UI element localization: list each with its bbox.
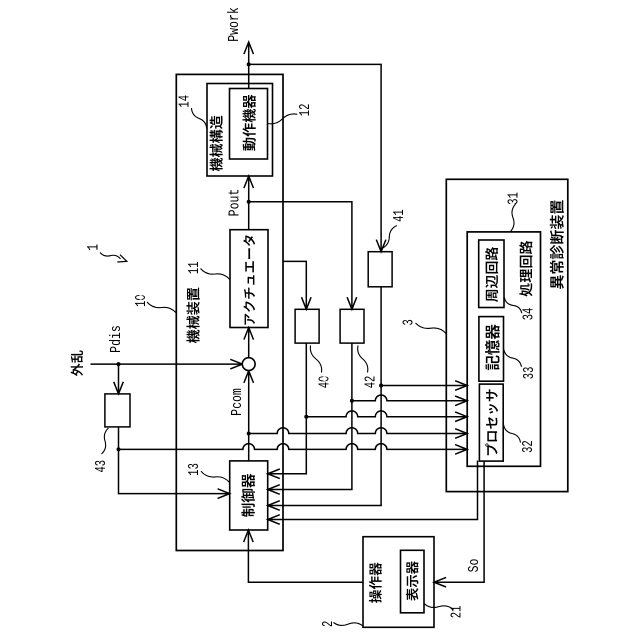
leader label 13 (201, 471, 230, 482)
wire Pout branch to sensor 42 (249, 202, 352, 310)
wire feed 2 sensor42-line to processing circuit (352, 395, 467, 401)
arrowhead into controller right 2 (268, 485, 280, 495)
label 機械構造 (210, 116, 223, 172)
wire feed 5 sensor43-line to processing circuit (119, 444, 468, 450)
label アクチュエータ (243, 235, 255, 324)
arrowhead into controller bottom (244, 530, 254, 542)
svg-text:33: 33 (520, 367, 537, 380)
wire So processor to display (434, 461, 484, 583)
junction disturbance (117, 362, 121, 366)
arrowhead into sensor 42 top (347, 297, 357, 309)
leader label 12 (268, 114, 298, 124)
arrowhead feed 2 (455, 396, 467, 406)
svg-text:14: 14 (176, 95, 193, 108)
arrowhead into controller right 4 (268, 515, 280, 525)
svg-text:34: 34 (520, 308, 537, 321)
svg-text:Pout: Pout (227, 189, 244, 217)
leader label 42 (358, 346, 368, 373)
label プロセッサ (485, 389, 498, 455)
wire processor to controller (268, 461, 478, 520)
svg-text:21: 21 (448, 605, 465, 618)
wire branch to sensor 43 (118, 364, 120, 394)
wire disturbance 外乱 input (91, 363, 243, 365)
box operation-device 操作器 (2) (363, 537, 434, 628)
box sensor 43 (105, 394, 130, 427)
wire operation device to controller (248, 530, 363, 582)
wire feed 1 sensor41-line to processing circuit (381, 385, 467, 387)
leader label 10 (147, 302, 176, 313)
svg-text:2: 2 (319, 621, 336, 627)
label 処理回路 (519, 241, 532, 297)
box peripheral-circuit 周辺回路 (34) (479, 240, 504, 308)
box operating-device 動作機器 (12) (230, 89, 268, 160)
wire sensor 40 to controller (268, 343, 307, 474)
svg-text:1: 1 (86, 244, 103, 251)
wire machine edge to sensor 40 (283, 261, 306, 309)
wire feed 3 sensor40-line to processing circuit (306, 411, 467, 417)
mask dot of 0 glyph in label 40 (322, 377, 327, 382)
wire Pcom controller to summing junction (248, 371, 250, 461)
arrowhead label 1 (117, 255, 127, 262)
junction sensor 43 output (117, 447, 121, 451)
junction Pwork (247, 62, 251, 66)
box machine-unit 機械装置 (10) (176, 74, 283, 550)
label 外乱 (71, 350, 83, 376)
wire sensor 41 to controller (268, 287, 381, 506)
wire Pwork output (248, 42, 250, 89)
svg-text:13: 13 (185, 463, 202, 476)
wire summing junction to actuator (248, 328, 250, 358)
arrowhead into controller right 1 (268, 469, 280, 479)
leader label 41 (382, 226, 397, 249)
leader label 40 (310, 346, 321, 373)
svg-text:So: So (467, 559, 484, 573)
svg-text:3: 3 (400, 319, 417, 325)
svg-text:Pwork: Pwork (227, 7, 244, 42)
svg-text:31: 31 (505, 192, 522, 205)
leader label 34 (504, 298, 522, 314)
label 制御器 (241, 474, 255, 517)
wire sensor 43 output down (119, 427, 230, 494)
arrowhead into summing junction bottom (244, 371, 254, 383)
box processor プロセッサ (32) (479, 384, 503, 461)
box processing-circuit 処理回路 (31) (467, 232, 540, 466)
svg-text:11: 11 (185, 261, 202, 274)
wire sensor 42 to controller (268, 343, 352, 489)
arrowhead into operation device right (434, 577, 446, 587)
arrowhead feed 3 (455, 412, 467, 422)
leader label 21 (424, 604, 453, 610)
arrowhead into controller left (Pdis) (218, 489, 230, 499)
box memory 記憶器 (33) (479, 317, 504, 382)
arrowhead Pwork up (244, 42, 254, 54)
arrowhead Pout up (244, 176, 254, 188)
box sensor 41 (368, 252, 392, 287)
wire Pwork branch to sensor 41 (249, 64, 381, 251)
leader label 32 (504, 425, 521, 443)
leader label 43 (102, 428, 109, 454)
arrowhead into sensor 40 top (302, 297, 312, 309)
box controller 制御器 (13) (230, 461, 268, 530)
summing junction circle (242, 358, 255, 371)
svg-text:Pdis: Pdis (109, 325, 126, 353)
junction Pcom (247, 432, 251, 436)
arrowhead feed 4 (455, 429, 467, 439)
arrowhead feed 1 (455, 381, 467, 391)
junction sensor 41 line (379, 384, 383, 388)
box sensor 40 (295, 309, 319, 343)
leader label 31 (511, 204, 516, 232)
junction Pout (247, 200, 251, 204)
junction sensor 42 line (350, 399, 354, 403)
svg-text:Pcom: Pcom (230, 388, 247, 416)
svg-text:43: 43 (92, 460, 109, 473)
arrowhead into controller right 3 (268, 501, 280, 511)
label 機械装置 (186, 288, 199, 344)
svg-text:42: 42 (362, 376, 379, 389)
arrowhead into actuator bottom (244, 328, 254, 340)
label 操作器 (369, 562, 382, 603)
arrowhead into sensor 41 top (376, 240, 386, 252)
box sensor 42 (340, 309, 364, 343)
box mechanical-structure 機械構造 (14) (207, 84, 273, 177)
leader label 33 (504, 350, 522, 367)
junction sensor 40 line (304, 415, 308, 419)
mask dot of 0 glyph in label 10 (138, 295, 143, 300)
arrowhead into sensor 43 top (114, 382, 124, 394)
svg-text:32: 32 (519, 440, 536, 453)
leader label 3 (416, 323, 447, 334)
box display 表示器 (21) (401, 550, 425, 613)
wire feed 4 Pcom to processing circuit (249, 428, 468, 434)
label 動作機器 (242, 95, 255, 151)
leader label 1 (100, 253, 121, 259)
label 記憶器 (485, 324, 500, 370)
label 表示器 (406, 561, 419, 601)
label 周辺回路 (485, 247, 498, 302)
arrowhead feed 5 (455, 445, 467, 455)
arrowhead into summing junction left (230, 359, 242, 369)
box actuator アクチュエータ (11) (230, 230, 268, 328)
leader label 2 (334, 623, 363, 626)
leader label 14 (192, 108, 207, 129)
box abnormality-diagnosis-device 異常診断装置 (3) (446, 179, 568, 491)
label 異常診断装置 (550, 200, 564, 289)
svg-text:41: 41 (390, 209, 407, 222)
wire actuator to mechanical structure (Pout) (248, 176, 250, 230)
leader label 11 (201, 269, 230, 280)
svg-text:12: 12 (296, 104, 313, 117)
